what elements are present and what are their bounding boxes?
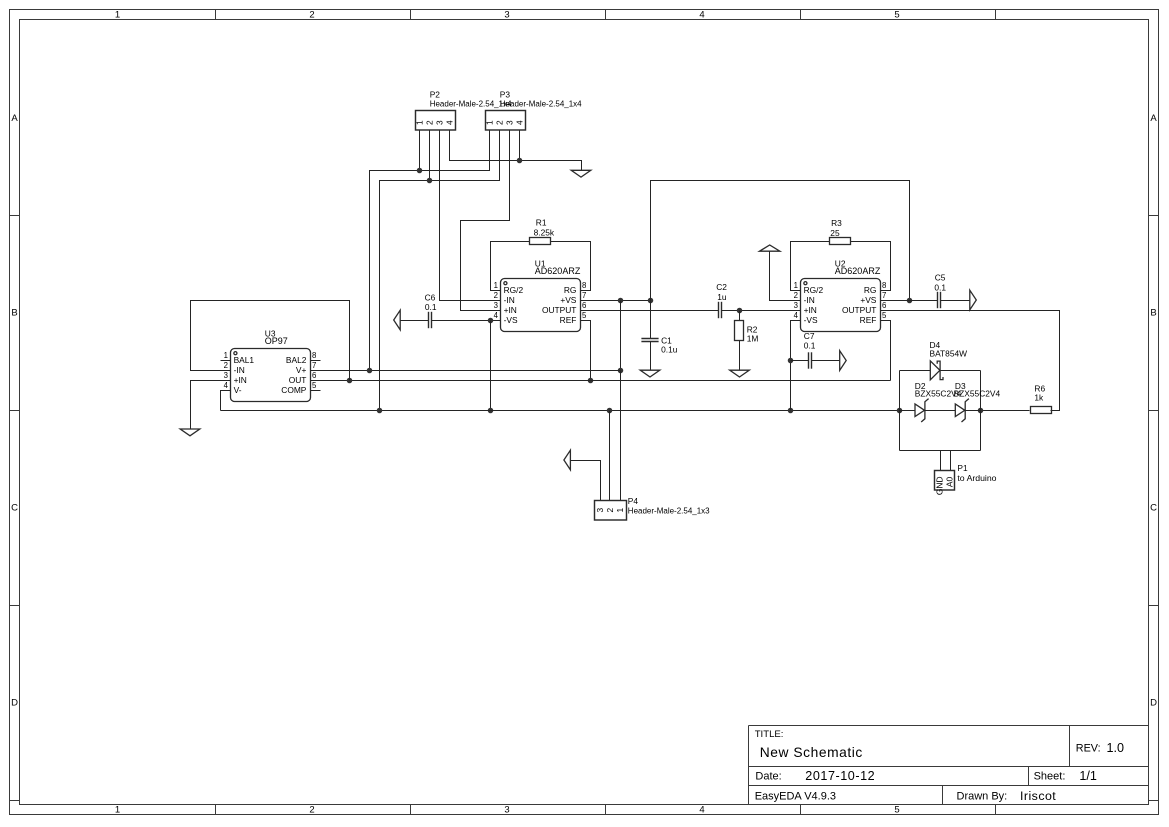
wire P3 pin1 down and left to vertical bbox=[370, 131, 490, 371]
svg-text:REF: REF bbox=[560, 315, 577, 325]
svg-text:1: 1 bbox=[485, 120, 495, 125]
svg-text:RG/2: RG/2 bbox=[804, 285, 824, 295]
svg-text:3: 3 bbox=[504, 805, 509, 816]
junction V+ node bbox=[618, 368, 624, 374]
junction +VS vertical tap bbox=[618, 298, 624, 304]
svg-text:GND: GND bbox=[935, 476, 945, 495]
wire C7 left bbox=[791, 360, 809, 362]
wire R2 bottom to ground bbox=[739, 341, 741, 371]
wire REF bus U3 OUT to U2 REF bbox=[311, 380, 891, 382]
junction +VS at C1/top loop bbox=[648, 298, 654, 304]
junction U3 feedback on bus bbox=[347, 378, 353, 384]
svg-text:5: 5 bbox=[882, 311, 887, 320]
wire right node vertical bbox=[980, 371, 982, 451]
svg-text:OUTPUT: OUTPUT bbox=[542, 305, 576, 315]
svg-text:2: 2 bbox=[309, 10, 314, 21]
ground symbol near P3 bbox=[571, 170, 591, 177]
svg-text:+IN: +IN bbox=[234, 375, 247, 385]
svg-text:2: 2 bbox=[425, 120, 435, 125]
svg-text:-IN: -IN bbox=[804, 295, 815, 305]
svg-text:B: B bbox=[1150, 307, 1156, 318]
svg-text:Header-Male-2.54_1x3: Header-Male-2.54_1x3 bbox=[628, 507, 710, 516]
U2 pin-1 indicator bbox=[804, 282, 807, 285]
svg-text:AD620ARZ: AD620ARZ bbox=[835, 266, 881, 276]
svg-text:1: 1 bbox=[115, 805, 120, 816]
wire U2 pin7 +VS right bbox=[881, 300, 910, 302]
wire U1 pin5 REF down to bus bbox=[581, 321, 591, 381]
junction at U1 -VS bbox=[488, 318, 494, 324]
junction P4.2 on V- bus bbox=[607, 408, 613, 414]
svg-text:-IN: -IN bbox=[504, 295, 515, 305]
wire left node vertical bbox=[899, 371, 901, 451]
svg-text:1u: 1u bbox=[717, 292, 727, 302]
svg-text:5: 5 bbox=[894, 10, 899, 21]
wire R3 right to U2 pin8 bbox=[851, 242, 891, 291]
junction U1 REF on bus bbox=[588, 378, 594, 384]
wire +VS tap down to V+ node bbox=[620, 301, 622, 371]
wire D4 cathode side bbox=[941, 370, 981, 372]
header P1 body bbox=[935, 471, 955, 491]
svg-text:3: 3 bbox=[494, 301, 498, 310]
capacitor C2 bbox=[719, 302, 722, 318]
svg-text:2: 2 bbox=[309, 805, 314, 816]
op-amp / IC U1 body bbox=[501, 279, 581, 332]
svg-text:D: D bbox=[1150, 697, 1157, 708]
svg-text:6: 6 bbox=[882, 301, 886, 310]
wire C7 right to port bbox=[812, 360, 840, 362]
svg-text:1: 1 bbox=[415, 120, 425, 125]
svg-text:Drawn By:: Drawn By: bbox=[957, 791, 1008, 803]
svg-text:0.1: 0.1 bbox=[425, 302, 437, 312]
svg-text:4: 4 bbox=[445, 120, 455, 125]
svg-text:2: 2 bbox=[794, 291, 798, 300]
wire U3 V- to bus bbox=[221, 391, 231, 411]
svg-text:8: 8 bbox=[312, 351, 316, 360]
zener diode D3 BZX55C2V4 bbox=[955, 399, 969, 422]
svg-text:REV:: REV: bbox=[1076, 743, 1101, 755]
wire VCC flag to U2 pin2 bbox=[770, 252, 801, 301]
wire bottom of clamp network bbox=[900, 450, 981, 452]
svg-text:2: 2 bbox=[495, 120, 505, 125]
wire P4 pin2 down bbox=[609, 411, 611, 501]
header P4 body bbox=[595, 501, 627, 521]
svg-text:OUT: OUT bbox=[289, 375, 307, 385]
svg-text:4: 4 bbox=[515, 120, 525, 125]
svg-text:COMP: COMP bbox=[281, 385, 307, 395]
svg-text:4: 4 bbox=[699, 10, 704, 21]
stub U3 pin5 COMP bbox=[311, 390, 321, 392]
wire P3 pin3 to U1 +IN bbox=[461, 131, 510, 311]
U1 pin-1 indicator bbox=[504, 282, 507, 285]
svg-text:R3: R3 bbox=[831, 218, 842, 228]
svg-text:4: 4 bbox=[699, 805, 704, 816]
svg-text:6: 6 bbox=[312, 371, 316, 380]
stub U3 pin1 BAL1 bbox=[221, 360, 231, 362]
wire R2 top bbox=[739, 311, 741, 321]
junction P2.1 on net bbox=[417, 168, 423, 174]
wire U3 feedback -IN loop bbox=[191, 301, 350, 381]
svg-text:1: 1 bbox=[615, 508, 625, 513]
wire P2 pin3 down to U1 -IN bbox=[440, 131, 501, 301]
title block frame bbox=[749, 726, 1149, 805]
svg-text:EasyEDA V4.9.3: EasyEDA V4.9.3 bbox=[755, 790, 836, 802]
svg-text:Sheet:: Sheet: bbox=[1034, 771, 1066, 783]
wire P2 pin2 down bbox=[429, 131, 431, 181]
wire P1 A0 pin bbox=[950, 451, 952, 471]
svg-text:4: 4 bbox=[494, 311, 499, 320]
svg-text:BAT854W: BAT854W bbox=[930, 349, 968, 359]
wire C6 right plate to U1 -VS bbox=[432, 320, 501, 322]
wire U1 pin7 +VS right bbox=[581, 300, 651, 302]
resistor R6 bbox=[1031, 407, 1052, 414]
wire U3 +IN to ground bbox=[191, 381, 231, 430]
wire C5 right to port bbox=[941, 300, 970, 302]
power flag (VCC arrow) at U2 -IN bbox=[760, 245, 780, 251]
svg-text:0.1: 0.1 bbox=[934, 283, 946, 293]
port arrow (input) near P4 bbox=[564, 450, 571, 470]
svg-text:1: 1 bbox=[224, 351, 228, 360]
op-amp / IC U3 body bbox=[231, 349, 311, 402]
svg-text:5: 5 bbox=[582, 311, 587, 320]
wire D3 cathode to right node bbox=[966, 410, 981, 412]
svg-text:7: 7 bbox=[882, 291, 886, 300]
ground symbol at U3 +IN bbox=[180, 429, 200, 436]
svg-text:A: A bbox=[11, 113, 18, 124]
svg-text:8: 8 bbox=[882, 281, 886, 290]
junction U1 -VS on V- bus bbox=[488, 408, 494, 414]
svg-text:8: 8 bbox=[582, 281, 586, 290]
svg-text:2: 2 bbox=[224, 361, 228, 370]
junction P2.2 net on V- bus bbox=[377, 408, 383, 414]
svg-text:A0: A0 bbox=[945, 477, 955, 488]
wire P2 pin4 down and right to ground bbox=[450, 131, 582, 171]
wire U1 pin1 to R1 left bbox=[491, 242, 530, 291]
svg-text:2017-10-12: 2017-10-12 bbox=[805, 769, 875, 783]
wire R6 left to node bbox=[981, 410, 1030, 412]
svg-text:25: 25 bbox=[830, 228, 840, 238]
wire U2 pin5 REF down to bus bbox=[881, 321, 891, 381]
svg-text:6: 6 bbox=[582, 301, 586, 310]
svg-text:Date:: Date: bbox=[755, 771, 781, 783]
svg-text:+IN: +IN bbox=[804, 305, 817, 315]
wire port to P4 pin3 bbox=[571, 461, 601, 501]
zener diode D2 BZX55C2V4 bbox=[915, 399, 929, 422]
svg-text:3: 3 bbox=[794, 301, 798, 310]
junction diode network left node bbox=[897, 408, 903, 414]
svg-text:P1: P1 bbox=[957, 463, 968, 473]
svg-text:V+: V+ bbox=[296, 365, 307, 375]
svg-text:to Arduino: to Arduino bbox=[957, 473, 996, 483]
svg-text:A: A bbox=[1150, 113, 1157, 124]
svg-text:TITLE:: TITLE: bbox=[755, 729, 784, 740]
wire C1 bottom to ground bbox=[650, 342, 652, 371]
svg-text:7: 7 bbox=[312, 361, 316, 370]
svg-text:4: 4 bbox=[224, 381, 229, 390]
junction right +VS node bbox=[907, 298, 913, 304]
svg-text:RG: RG bbox=[564, 285, 577, 295]
wire node to D2 anode bbox=[900, 410, 916, 412]
wire top loop +VS to right side bbox=[651, 181, 910, 301]
wire P2 pin1 to node bbox=[419, 131, 421, 171]
capacitor C7 bbox=[809, 352, 812, 368]
diode D4 (schottky BAT854W) bbox=[930, 361, 943, 380]
resistor R2 bbox=[735, 321, 744, 341]
svg-text:+IN: +IN bbox=[504, 305, 517, 315]
junction R2 top bbox=[737, 308, 743, 314]
wire C5 left bbox=[910, 300, 938, 302]
svg-text:Iriscot: Iriscot bbox=[1020, 789, 1056, 803]
junction P3.4 on ground net bbox=[517, 158, 523, 164]
svg-text:1: 1 bbox=[494, 281, 498, 290]
svg-text:V-: V- bbox=[234, 385, 242, 395]
svg-text:-VS: -VS bbox=[804, 315, 818, 325]
svg-text:3: 3 bbox=[504, 10, 509, 21]
svg-text:C: C bbox=[11, 502, 18, 513]
ground symbol at C1 bbox=[640, 370, 660, 377]
junction P2.2 on net bbox=[427, 178, 433, 184]
svg-text:C: C bbox=[1150, 502, 1157, 513]
svg-text:1M: 1M bbox=[747, 334, 759, 344]
wire V+ vertical continues to P4 pin1 bbox=[620, 371, 622, 501]
svg-text:C5: C5 bbox=[935, 273, 946, 283]
svg-text:AD620ARZ: AD620ARZ bbox=[535, 266, 581, 276]
svg-text:1: 1 bbox=[794, 281, 798, 290]
svg-text:Header-Male-2.54_1x4: Header-Male-2.54_1x4 bbox=[500, 100, 582, 109]
wire D4 anode side bbox=[900, 370, 931, 372]
wire U2 pin1 to R3 left bbox=[791, 242, 830, 291]
port arrow (output) at C7 bbox=[840, 351, 847, 371]
svg-text:+VS: +VS bbox=[560, 295, 576, 305]
wire V- bus bbox=[221, 410, 900, 412]
svg-text:BZX55C2V4: BZX55C2V4 bbox=[954, 389, 1001, 399]
junction diode network right node bbox=[978, 408, 984, 414]
svg-text:BAL1: BAL1 bbox=[234, 355, 255, 365]
svg-text:3: 3 bbox=[224, 371, 228, 380]
wire D2 cathode to D3 anode bbox=[925, 410, 956, 412]
svg-text:1: 1 bbox=[115, 10, 120, 21]
svg-text:RG: RG bbox=[864, 285, 877, 295]
capacitor C1 bbox=[641, 339, 658, 342]
wire U1 -VS down to V- bus bbox=[490, 321, 492, 411]
svg-text:-IN: -IN bbox=[234, 365, 245, 375]
capacitor C5 bbox=[938, 292, 941, 308]
wire C1 top bbox=[650, 301, 652, 339]
wire C2 to U2 +IN bbox=[722, 310, 801, 312]
wire port to C6 left plate bbox=[401, 320, 429, 322]
resistor R3 bbox=[830, 238, 851, 245]
svg-text:C2: C2 bbox=[716, 282, 727, 292]
svg-text:P4: P4 bbox=[628, 496, 639, 506]
wire R1 right to U1 pin8 bbox=[551, 242, 591, 291]
svg-text:2: 2 bbox=[494, 291, 498, 300]
svg-text:1k: 1k bbox=[1034, 392, 1044, 402]
svg-text:2: 2 bbox=[605, 508, 615, 513]
capacitor C6 bbox=[429, 312, 432, 328]
svg-text:REF: REF bbox=[860, 315, 877, 325]
svg-text:0.1u: 0.1u bbox=[661, 345, 678, 355]
svg-text:5: 5 bbox=[312, 381, 317, 390]
wire V+ bus from U3 pin7 bbox=[311, 370, 621, 372]
svg-text:3: 3 bbox=[435, 120, 445, 125]
svg-text:RG/2: RG/2 bbox=[504, 285, 524, 295]
wire U2 pin6 OUTPUT right and down to R6 bbox=[881, 311, 1060, 411]
wire P3 pin4 down bbox=[519, 131, 521, 161]
svg-text:5: 5 bbox=[894, 805, 899, 816]
wire U1 pin6 OUTPUT to C2 bbox=[581, 310, 719, 312]
svg-text:BAL2: BAL2 bbox=[286, 355, 307, 365]
svg-text:New Schematic: New Schematic bbox=[760, 745, 863, 760]
svg-text:1/1: 1/1 bbox=[1079, 769, 1097, 783]
ground symbol at R2 bbox=[730, 370, 750, 377]
svg-text:7: 7 bbox=[582, 291, 586, 300]
stub U3 pin8 BAL2 bbox=[311, 360, 321, 362]
svg-text:P3: P3 bbox=[500, 89, 511, 99]
svg-text:4: 4 bbox=[794, 311, 799, 320]
svg-text:1.0: 1.0 bbox=[1107, 741, 1125, 755]
op-amp / IC U2 body bbox=[801, 279, 881, 332]
port arrow (input) at C6 bbox=[394, 310, 401, 330]
svg-text:0.1: 0.1 bbox=[804, 341, 816, 351]
junction P2.1 net on V+ bus bbox=[367, 368, 373, 374]
svg-text:3: 3 bbox=[595, 508, 605, 513]
header P3 body bbox=[486, 111, 526, 131]
U3 pin-1 indicator bbox=[234, 352, 237, 355]
svg-text:8.25k: 8.25k bbox=[534, 227, 555, 237]
svg-text:OUTPUT: OUTPUT bbox=[842, 305, 876, 315]
svg-text:+VS: +VS bbox=[860, 295, 876, 305]
svg-text:P2: P2 bbox=[430, 89, 441, 99]
wire U2 pin4 -VS down to V- bus bbox=[791, 321, 801, 411]
svg-text:3: 3 bbox=[505, 120, 515, 125]
title block text bbox=[755, 729, 1124, 803]
svg-text:OP97: OP97 bbox=[265, 336, 288, 346]
junction C7 tap bbox=[788, 358, 794, 364]
svg-text:-VS: -VS bbox=[504, 315, 518, 325]
resistor R1 bbox=[530, 238, 551, 245]
svg-text:B: B bbox=[11, 307, 17, 318]
svg-text:D: D bbox=[11, 697, 18, 708]
junction U2 -VS on V- bus bbox=[788, 408, 794, 414]
wire P1 GND pin bbox=[940, 451, 942, 471]
svg-text:R1: R1 bbox=[536, 218, 547, 228]
wire P3 pin2 down and left to vertical bbox=[380, 131, 500, 411]
port arrow (output) at C5 bbox=[970, 290, 977, 310]
header P2 body bbox=[416, 111, 456, 131]
